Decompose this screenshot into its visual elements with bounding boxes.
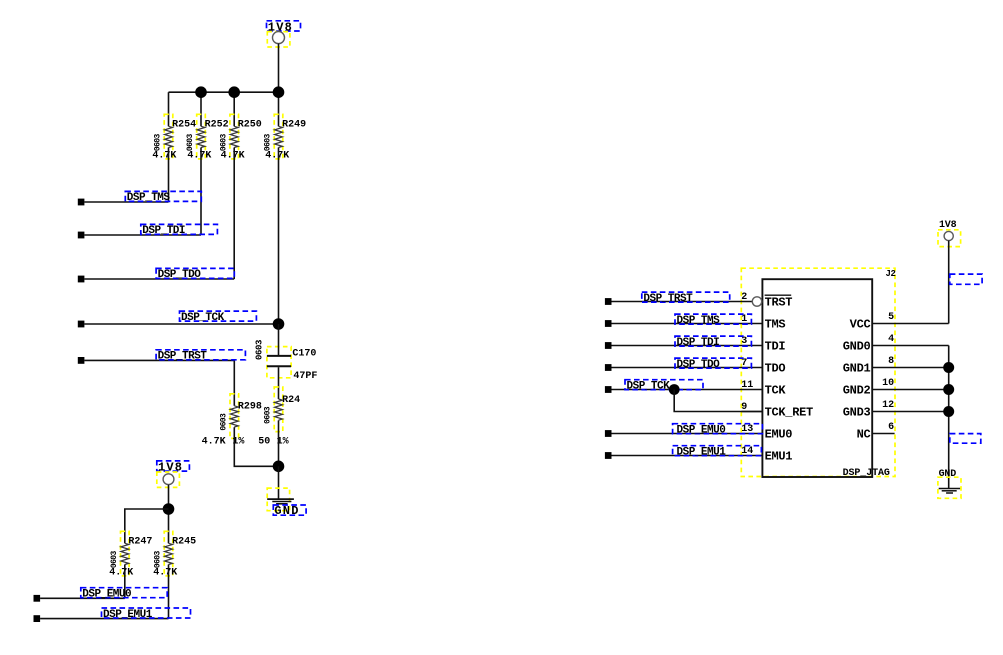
wire DSP_TRST to R298	[84, 360, 234, 405]
net label DSP_TCK (right)	[625, 380, 703, 393]
wire bus to R249	[278, 92, 280, 126]
svg-text:TRST: TRST	[765, 296, 793, 310]
svg-text:DSP_EMU1: DSP_EMU1	[677, 447, 727, 459]
svg-text:DSP_TMS: DSP_TMS	[127, 192, 171, 204]
svg-text:0603: 0603	[264, 406, 273, 424]
svg-text:DSP_EMU0: DSP_EMU0	[677, 425, 726, 437]
pin 6 (NC) of J2	[857, 422, 895, 442]
svg-text:0603: 0603	[220, 413, 229, 431]
port DSP_EMU1 (right)	[605, 452, 612, 459]
svg-text:EMU0: EMU0	[765, 428, 793, 442]
port DSP_TCK (left)	[78, 321, 85, 328]
net label DSP_TMS (left)	[125, 191, 201, 204]
junction GND2	[943, 384, 954, 395]
svg-text:J2: J2	[886, 269, 896, 279]
svg-text:GND0: GND0	[843, 340, 871, 354]
net label DSP_TMS (right)	[675, 314, 751, 327]
ground symbol GND (left)	[267, 488, 294, 511]
ground symbol GND (right)	[938, 477, 961, 498]
svg-text:GND3: GND3	[843, 406, 871, 420]
svg-text:0603: 0603	[154, 134, 163, 152]
net label DSP_TDI (right)	[675, 336, 751, 349]
svg-text:TMS: TMS	[765, 318, 786, 332]
pin 5 (VCC) of J2	[850, 312, 949, 332]
svg-text:DSP_TRST: DSP_TRST	[158, 351, 208, 363]
wire GND bus (right)	[948, 346, 950, 489]
net label DSP_TRST (left)	[156, 350, 245, 363]
svg-text:GND: GND	[939, 469, 957, 480]
svg-text:DSP_TRST: DSP_TRST	[643, 293, 693, 305]
pin 7 (TDO) of J2	[611, 358, 785, 376]
resistor R298 4.7K 1%	[220, 394, 262, 439]
svg-text:TCK_RET: TCK_RET	[765, 406, 813, 420]
svg-text:1V8: 1V8	[158, 461, 183, 475]
svg-text:NC: NC	[857, 428, 871, 442]
svg-text:11: 11	[741, 380, 753, 391]
junction DSP_TCK branch	[669, 384, 680, 395]
resistor R247 4.7K 0603	[110, 531, 152, 576]
resistor R24 50-ohm 1%	[264, 387, 300, 432]
svg-text:50: 50	[258, 436, 270, 447]
svg-text:C170: C170	[292, 348, 316, 359]
svg-text:12: 12	[882, 400, 894, 411]
wire DSP_TCK	[84, 323, 278, 325]
junction bus/R252	[195, 86, 207, 98]
svg-text:4.7K: 4.7K	[221, 150, 245, 161]
svg-text:R252: R252	[205, 120, 229, 131]
junction 1V8/R247 branch	[163, 503, 175, 515]
svg-text:TDI: TDI	[765, 340, 786, 354]
svg-text:5: 5	[888, 312, 894, 323]
svg-text:47PF: 47PF	[293, 371, 317, 382]
wire bus to R254	[168, 92, 170, 126]
svg-text:R245: R245	[172, 537, 196, 548]
connector J2 body	[741, 268, 895, 477]
net label DSP_EMU0 (right)	[673, 424, 763, 437]
wire DSP_TMS	[84, 201, 168, 203]
port DSP_TMS (right)	[605, 320, 612, 327]
port DSP_TDI (left)	[78, 232, 85, 239]
wire DSP_EMU0	[40, 597, 125, 599]
svg-text:DSP_TCK: DSP_TCK	[181, 312, 225, 324]
svg-text:2: 2	[741, 292, 747, 303]
unnamed selection box (upper right)	[950, 274, 982, 284]
svg-text:R249: R249	[282, 120, 306, 131]
wire top bus	[169, 91, 279, 93]
wire R254 to DSP_TMS	[168, 148, 170, 203]
wire 1V8 to VCC	[948, 241, 950, 324]
resistor R250 4.7K 0603	[219, 114, 261, 159]
port DSP_EMU1 (left)	[34, 615, 41, 622]
pin 8 (GND1) of J2	[843, 356, 949, 376]
wire bus to R250	[233, 92, 235, 126]
port DSP_EMU0 (left)	[34, 595, 41, 602]
pin 14 (EMU1) of J2	[611, 446, 792, 464]
svg-text:8: 8	[888, 356, 894, 367]
pin 10 (GND2) of J2	[843, 378, 949, 398]
resistor R245 4.7K 0603	[154, 531, 196, 576]
svg-text:GND: GND	[274, 504, 299, 518]
pin 1 (TMS) of J2	[611, 314, 785, 332]
svg-text:R24: R24	[282, 395, 300, 406]
svg-text:4.7K: 4.7K	[152, 150, 176, 161]
net label DSP_TCK (left)	[180, 311, 257, 324]
wire DSP_TDO	[84, 278, 234, 280]
svg-text:DSP_EMU1: DSP_EMU1	[103, 609, 153, 621]
svg-text:DSP_TDO: DSP_TDO	[158, 269, 202, 281]
capacitor C170 47PF 0603	[254, 340, 317, 382]
svg-text:DSP_TDI: DSP_TDI	[677, 337, 720, 349]
svg-text:TDO: TDO	[765, 362, 786, 376]
wire R252 to DSP_TDI	[200, 148, 202, 236]
power symbol 1V8 (right)	[938, 220, 961, 247]
wire 1V8 to R245	[168, 485, 170, 544]
wire bus to R252	[200, 92, 202, 126]
wire 1V8 to top bus	[278, 44, 280, 93]
svg-text:GND1: GND1	[843, 362, 871, 376]
svg-text:0603: 0603	[264, 134, 273, 152]
svg-text:0603: 0603	[186, 134, 195, 152]
port DSP_TDI (right)	[605, 342, 612, 349]
wire R245 to DSP_EMU1	[168, 565, 170, 619]
svg-text:4.7K: 4.7K	[109, 568, 133, 579]
net label DSP_TDI (left)	[141, 224, 218, 237]
svg-text:R298: R298	[238, 401, 262, 412]
wire branch to R247	[125, 509, 169, 543]
power symbol 1V8 (bottom left)	[157, 461, 190, 488]
svg-text:DSP_TMS: DSP_TMS	[677, 315, 721, 327]
svg-text:DSP_JTAG: DSP_JTAG	[843, 468, 890, 479]
svg-text:R254: R254	[172, 120, 196, 131]
net label GND (left)	[273, 504, 306, 518]
pin 9 (TCK_RET) of J2	[741, 402, 813, 420]
resistor R252 4.7K 0603	[186, 114, 228, 159]
junction R24/R298/GND	[273, 461, 285, 473]
wire DSP_TDI	[84, 234, 201, 236]
svg-text:4.7K: 4.7K	[202, 436, 226, 447]
svg-text:0603: 0603	[110, 551, 119, 569]
svg-text:0603: 0603	[219, 134, 228, 152]
wire junction to GND symbol	[278, 466, 280, 499]
net label DSP_TDO (right)	[675, 358, 751, 371]
port DSP_TDO (left)	[78, 276, 85, 283]
junction bus/R249	[273, 86, 285, 98]
svg-text:4.7K: 4.7K	[265, 150, 289, 161]
unnamed selection box (lower right)	[950, 434, 981, 444]
net label DSP_TRST (right)	[642, 292, 730, 305]
net label DSP_TDO (left)	[156, 268, 234, 281]
junction DSP_TCK/C170	[273, 318, 285, 330]
wire R249 to DSP_TCK	[278, 148, 280, 325]
svg-text:10: 10	[882, 378, 894, 389]
wire TCK junction to C170	[278, 324, 280, 355]
junction GND1	[943, 362, 954, 373]
svg-text:R247: R247	[128, 537, 152, 548]
port DSP_TMS (left)	[78, 199, 85, 206]
wire R250 to DSP_TDO	[233, 148, 235, 280]
pin 13 (EMU0) of J2	[611, 424, 792, 442]
net label DSP_EMU1 (right)	[673, 446, 762, 459]
svg-text:DSP_EMU0: DSP_EMU0	[82, 589, 131, 601]
pin 3 (TDI) of J2	[611, 336, 785, 354]
port DSP_TRST (left)	[78, 357, 85, 364]
pin 11 (TCK) of J2	[611, 380, 786, 398]
svg-text:0603: 0603	[154, 551, 163, 569]
port DSP_TDO (right)	[605, 364, 612, 371]
pin 12 (GND3) of J2	[843, 400, 949, 420]
wire R247 to DSP_EMU0	[124, 565, 126, 599]
svg-text:GND2: GND2	[843, 384, 871, 398]
wire TCK to TCK_RET	[674, 390, 762, 412]
svg-text:4.7K: 4.7K	[187, 150, 211, 161]
wire DSP_EMU1	[40, 618, 168, 620]
port DSP_EMU0 (right)	[605, 430, 612, 437]
pin 2 (TRST) of J2	[611, 292, 792, 310]
svg-text:EMU1: EMU1	[765, 450, 793, 464]
svg-text:6: 6	[888, 422, 894, 433]
svg-text:R250: R250	[238, 120, 262, 131]
svg-text:DSP_TDI: DSP_TDI	[142, 225, 185, 237]
port DSP_TCK (right)	[605, 386, 612, 393]
svg-text:VCC: VCC	[850, 318, 871, 332]
wire R24 to GND junction	[278, 420, 280, 466]
svg-text:0603: 0603	[254, 340, 264, 360]
resistor R249 4.7K 0603	[264, 114, 306, 159]
svg-text:DSP_TDO: DSP_TDO	[677, 359, 721, 371]
resistor R254 4.7K 0603	[154, 114, 196, 159]
svg-text:4.7K: 4.7K	[153, 568, 177, 579]
net label DSP_EMU1 (left)	[102, 608, 191, 621]
pin 4 (GND0) of J2	[843, 334, 949, 354]
power symbol 1V8 (top left)	[267, 20, 301, 47]
svg-text:4: 4	[888, 334, 894, 345]
svg-text:DSP_TCK: DSP_TCK	[627, 381, 671, 393]
junction bus/R250	[228, 86, 240, 98]
net label DSP_EMU0 (left)	[81, 588, 167, 601]
svg-text:TCK: TCK	[765, 384, 787, 398]
wire R298 to GND junction	[234, 427, 278, 466]
port DSP_TRST (right)	[605, 298, 612, 305]
junction GND3	[943, 406, 954, 417]
wire C170 to R24	[278, 367, 280, 399]
